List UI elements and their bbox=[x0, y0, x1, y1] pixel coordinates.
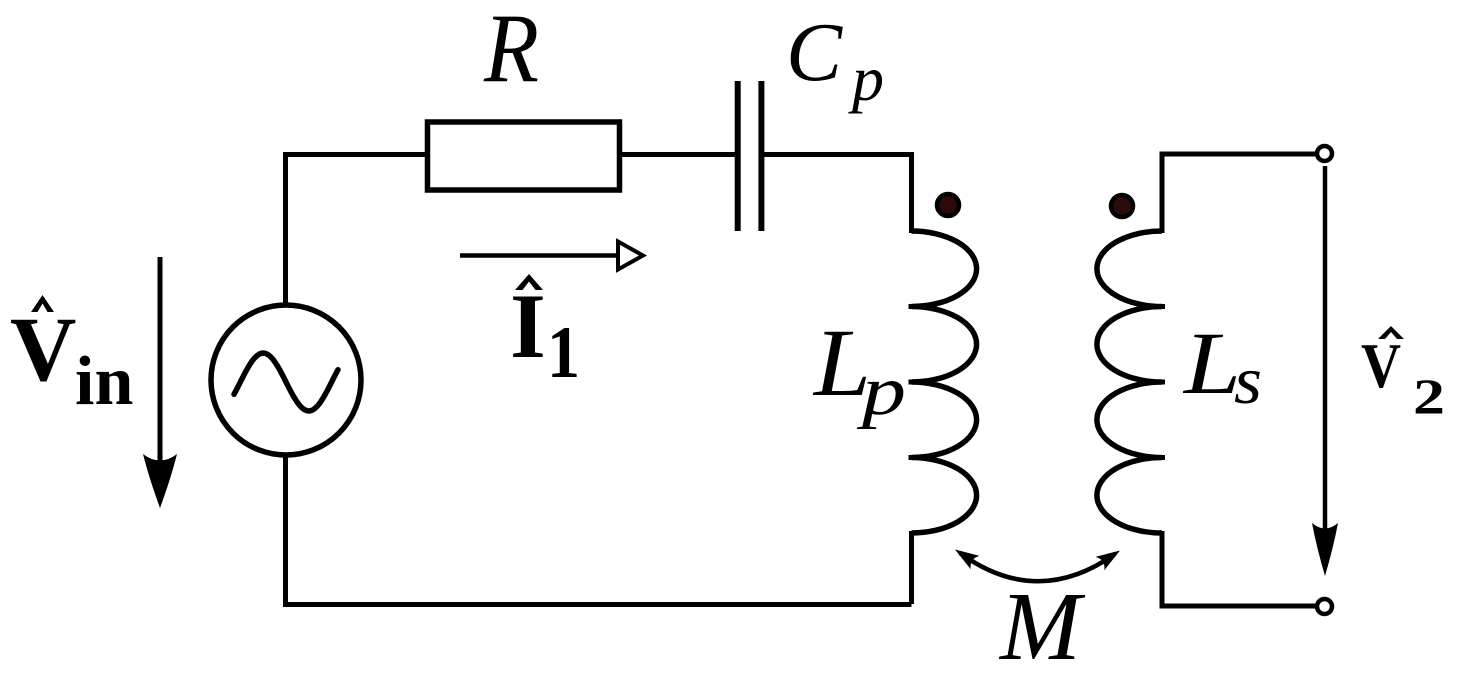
inductor Lp cusp stubs bbox=[909, 307, 935, 458]
wire left vertical lower bbox=[283, 453, 288, 604]
inductor Lp coil bbox=[912, 231, 977, 533]
svg-text:I: I bbox=[510, 275, 546, 377]
wire bottom bbox=[283, 602, 912, 607]
capacitor Cp plate left bbox=[735, 81, 741, 231]
svg-text:M: M bbox=[998, 573, 1086, 680]
svg-text:V: V bbox=[10, 298, 76, 400]
polarity dot secondary bbox=[1111, 195, 1133, 217]
mutual coupling arrow M left head bbox=[955, 550, 980, 570]
wire Lp bottom bbox=[909, 531, 914, 604]
inductor Ls coil bbox=[1097, 231, 1162, 533]
wire capacitor to Lp corner bbox=[763, 155, 912, 234]
wire top-left horizontal bbox=[286, 152, 428, 157]
wire Ls top corner bbox=[1162, 154, 1315, 233]
svg-text:p: p bbox=[856, 353, 906, 430]
svg-text:in: in bbox=[75, 343, 133, 420]
svg-text:V: V bbox=[1361, 330, 1401, 401]
capacitor Cp plate right bbox=[758, 81, 764, 231]
svg-text:2: 2 bbox=[1413, 368, 1445, 424]
svg-text:1: 1 bbox=[547, 312, 580, 394]
svg-text:L: L bbox=[1182, 315, 1241, 413]
source Vin AC source circle bbox=[211, 305, 361, 455]
sine wave inside source bbox=[234, 353, 338, 411]
arrow I1 line bbox=[460, 253, 618, 258]
svg-text:R: R bbox=[483, 0, 539, 104]
wire left vertical upper bbox=[283, 152, 288, 307]
arrow V2 head bbox=[1312, 523, 1338, 576]
mutual coupling arrow M right head bbox=[1096, 551, 1121, 571]
svg-text:C: C bbox=[786, 6, 843, 99]
wire Ls bottom corner bbox=[1162, 531, 1315, 606]
arrow Vin line bbox=[158, 257, 163, 463]
svg-text:s: s bbox=[1234, 342, 1262, 418]
mutual coupling arrow M arc bbox=[960, 553, 1115, 581]
arrow I1 open head bbox=[618, 242, 643, 270]
arrow V2 line bbox=[1323, 166, 1328, 530]
terminal bottom bbox=[1317, 599, 1332, 614]
polarity dot primary bbox=[937, 194, 959, 216]
svg-text:p: p bbox=[848, 43, 884, 114]
terminal top bbox=[1317, 146, 1332, 161]
arrow Vin head bbox=[143, 454, 177, 508]
inductor Ls cusp stubs bbox=[1140, 307, 1166, 458]
resistor R bbox=[428, 122, 620, 190]
wire resistor to capacitor bbox=[620, 152, 735, 157]
